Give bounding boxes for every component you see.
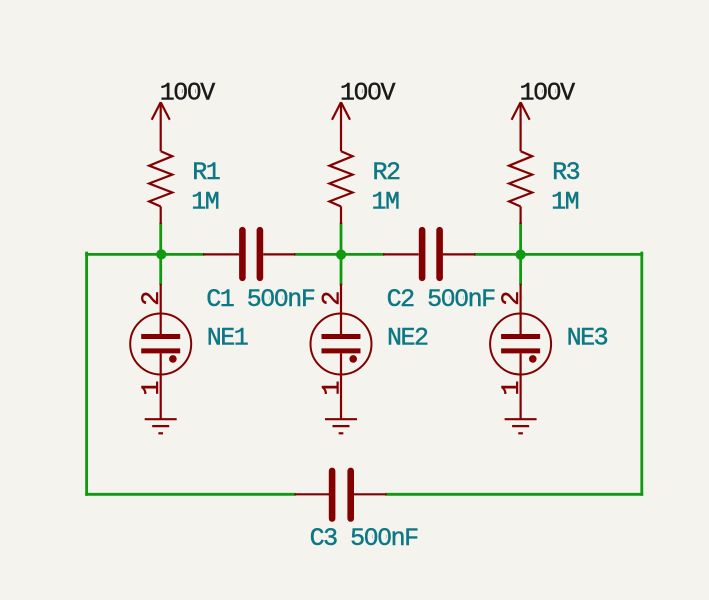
svg-text:NE2: NE2 xyxy=(387,324,428,353)
svg-text:2: 2 xyxy=(137,292,166,306)
svg-text:100V: 100V xyxy=(520,79,576,108)
svg-text:NE1: NE1 xyxy=(207,324,248,353)
svg-text:1M: 1M xyxy=(551,188,579,217)
svg-text:1M: 1M xyxy=(372,188,400,217)
svg-text:1: 1 xyxy=(137,382,166,396)
svg-text:2: 2 xyxy=(317,292,346,306)
svg-text:C3 500nF: C3 500nF xyxy=(310,524,419,553)
svg-text:1: 1 xyxy=(497,382,526,396)
svg-text:C1 500nF: C1 500nF xyxy=(206,285,315,314)
svg-text:100V: 100V xyxy=(160,79,216,108)
svg-text:R3: R3 xyxy=(552,158,580,187)
svg-text:NE3: NE3 xyxy=(567,324,608,353)
svg-text:100V: 100V xyxy=(340,79,396,108)
svg-text:2: 2 xyxy=(497,292,526,306)
svg-text:1: 1 xyxy=(317,382,346,396)
svg-text:R1: R1 xyxy=(192,158,220,187)
svg-text:R2: R2 xyxy=(373,158,401,187)
svg-text:C2 500nF: C2 500nF xyxy=(387,285,496,314)
svg-text:1M: 1M xyxy=(191,188,219,217)
